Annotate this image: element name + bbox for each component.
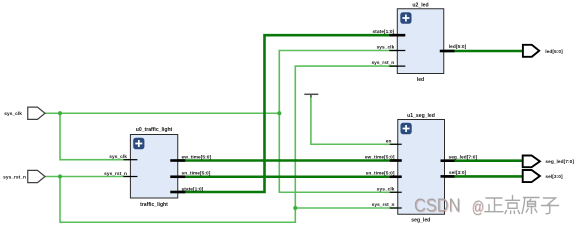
pin sn_time[5:0] of u1 xyxy=(390,175,402,178)
junction sys_rst_n at input branch xyxy=(58,174,62,178)
junction sys_clk at right column xyxy=(277,111,281,115)
wire sys_clk horizontal from port to junction column xyxy=(45,112,279,114)
pin ew_time[5:0] of u1 xyxy=(390,159,402,162)
svg-text:led[5:0]: led[5:0] xyxy=(545,49,563,55)
port sel[3:0] (output) xyxy=(523,170,563,182)
pin state[1:0] of u0 xyxy=(170,191,185,194)
wire sys_clk branch down to u1_seg_led xyxy=(279,113,397,192)
pin led[5:0] of u2 xyxy=(440,50,455,53)
port led[5:0] (output) xyxy=(523,45,563,57)
bus sel[3:0] u1_seg_led to output port xyxy=(445,175,523,178)
hanzi zheng xyxy=(485,198,503,212)
module u0_traffic_light xyxy=(130,127,177,208)
svg-text:sys_rst_n: sys_rst_n xyxy=(371,60,394,66)
svg-text:led[5:0]: led[5:0] xyxy=(449,44,467,50)
hanzi zi xyxy=(542,198,559,214)
svg-text:sys_clk: sys_clk xyxy=(377,186,395,192)
wire sys_clk branch up to u2_led xyxy=(279,51,397,114)
svg-text:seg_led[7:0]: seg_led[7:0] xyxy=(449,154,478,160)
pin sys_rst_n of u0 xyxy=(123,176,137,178)
svg-text:sn_time[5:0]: sn_time[5:0] xyxy=(366,171,395,177)
svg-text:seg_led[7:0]: seg_led[7:0] xyxy=(545,159,574,165)
pin sys_clk of u0 xyxy=(123,159,137,161)
svg-text:u1_seg_led: u1_seg_led xyxy=(407,113,435,119)
svg-text:@: @ xyxy=(472,197,484,216)
port sys_clk (input) xyxy=(4,107,45,119)
svg-text:state[1:0]: state[1:0] xyxy=(372,29,394,35)
svg-text:u2_led: u2_led xyxy=(412,2,428,8)
pin sel[3:0] of u1 xyxy=(441,175,455,178)
pin sys_rst_n of u1 xyxy=(390,207,402,209)
wire sys_clk branch down to traffic_light xyxy=(60,113,131,159)
wire sys_rst_n from port to traffic_light xyxy=(45,176,131,178)
module u1_seg_led xyxy=(398,113,445,223)
port sys_rst_n (input) xyxy=(3,170,45,182)
junction sys_rst_n at u1_seg_led branch xyxy=(293,206,297,210)
bus sn_time[5:0] traffic_light to u1_seg_led xyxy=(178,175,398,178)
svg-text:sel[3:0]: sel[3:0] xyxy=(449,170,467,176)
hanzi yuan xyxy=(522,198,539,214)
pin sys_clk of u2 xyxy=(389,50,405,52)
bus seg_led[7:0] u1_seg_led to output port xyxy=(445,159,523,162)
svg-text:sys_clk: sys_clk xyxy=(4,111,22,117)
svg-text:ew_time[5:0]: ew_time[5:0] xyxy=(365,154,395,160)
pin sys_clk of u1 xyxy=(390,191,402,193)
hanzi dian xyxy=(505,196,520,214)
wire sys_rst_n branch to u1_seg_led xyxy=(295,207,397,209)
junction sys_clk at input branch xyxy=(58,111,62,115)
pin ew_time[5:0] of u0 xyxy=(170,159,185,162)
wire sys_rst_n branch down along bottom rail and up right column to u2_led xyxy=(60,66,397,222)
bus led[5:0] u2_led to output port xyxy=(444,50,523,53)
svg-text:sys_rst_n: sys_rst_n xyxy=(104,171,127,177)
svg-text:sys_clk: sys_clk xyxy=(377,45,395,51)
svg-text:sn_time[5:0]: sn_time[5:0] xyxy=(182,171,211,177)
svg-text:CSDN: CSDN xyxy=(414,196,461,216)
pin sys_rst_n of u2 xyxy=(389,65,405,67)
svg-text:state[1:0]: state[1:0] xyxy=(182,186,204,192)
wire en from vcc to u1_seg_led xyxy=(311,97,398,145)
svg-text:seg_led: seg_led xyxy=(411,217,430,223)
port seg_led[7:0] (output) xyxy=(523,156,575,168)
svg-text:u0_traffic_light: u0_traffic_light xyxy=(136,127,173,133)
svg-text:sys_clk: sys_clk xyxy=(109,154,127,160)
vcc symbol xyxy=(304,94,318,97)
svg-text:ew_time[5:0]: ew_time[5:0] xyxy=(182,154,212,160)
bus state[1:0] traffic_light to u2_led xyxy=(178,35,398,192)
watermark CSDN @zhengdianyuanzi xyxy=(414,196,559,218)
svg-text:sel[3:0]: sel[3:0] xyxy=(545,174,563,180)
svg-text:sys_rst_n: sys_rst_n xyxy=(3,175,26,181)
svg-text:sys_rst_n: sys_rst_n xyxy=(372,202,395,208)
svg-text:led: led xyxy=(417,77,424,83)
svg-text:traffic_light: traffic_light xyxy=(140,202,168,208)
svg-text:en: en xyxy=(386,139,392,144)
bus ew_time[5:0] traffic_light to u1_seg_led xyxy=(178,159,398,162)
module u2_led xyxy=(397,2,443,83)
pin en of u1 xyxy=(390,143,402,145)
pin sn_time[5:0] of u0 xyxy=(170,175,185,178)
pin seg_led[7:0] of u1 xyxy=(441,159,455,162)
pin state[1:0] of u2 xyxy=(389,34,405,37)
